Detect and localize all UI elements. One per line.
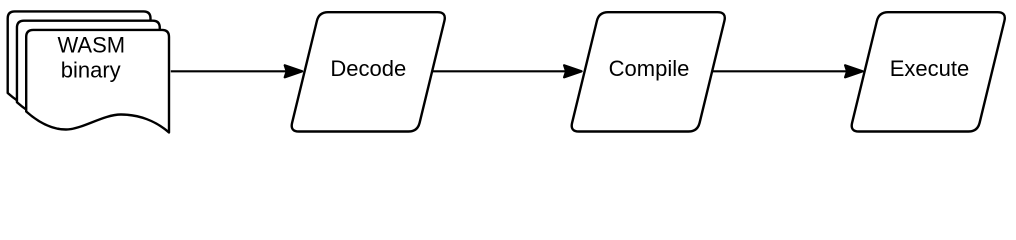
document page back bbox=[8, 11, 151, 114]
svg-text:Execute: Execute bbox=[890, 56, 970, 81]
arrow Compile to Execute bbox=[713, 65, 863, 77]
parallelogram Decode bbox=[292, 12, 445, 131]
label WASM binary bbox=[57, 32, 125, 82]
svg-text:binary: binary bbox=[61, 57, 121, 82]
arrow Decode to Compile bbox=[433, 65, 582, 77]
document page middle bbox=[17, 21, 160, 124]
document page front (WASM binary) bbox=[26, 30, 169, 133]
svg-text:Compile: Compile bbox=[609, 56, 690, 81]
arrow document to Decode bbox=[171, 65, 302, 77]
parallelogram Compile bbox=[572, 12, 725, 131]
svg-text:WASM: WASM bbox=[57, 32, 125, 57]
svg-text:Decode: Decode bbox=[330, 56, 406, 81]
parallelogram Execute bbox=[852, 12, 1005, 131]
